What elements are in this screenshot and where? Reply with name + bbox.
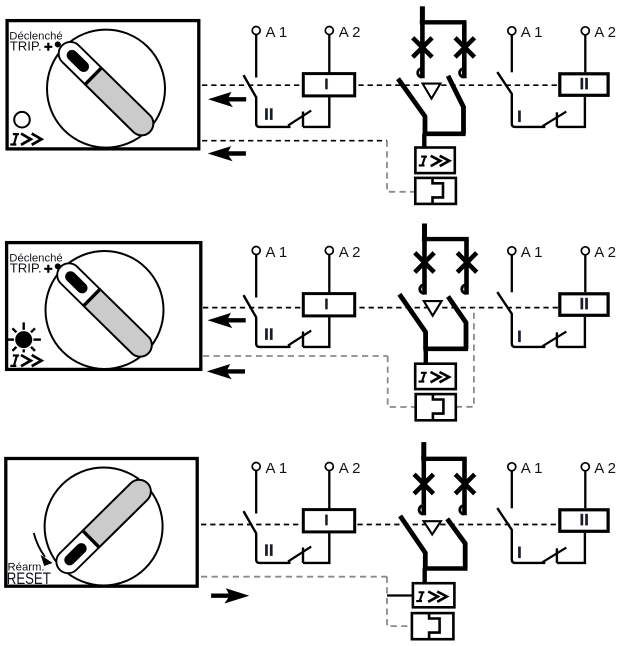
arrow trip signal out (row 1) [208, 92, 246, 107]
main control dashed wire (row 1) [202, 84, 558, 86]
right fixed contact hook (row 1) [460, 69, 464, 77]
terminal A1 (closing circuit, row 3) [508, 463, 516, 471]
svg-text:A 2: A 2 [594, 460, 616, 477]
main control dashed wire (row 3) [201, 524, 558, 526]
contact post (row 1) [302, 112, 304, 127]
contact blade (closing, row 2) [542, 332, 566, 347]
rotary knob (row 2, tripped position) [46, 251, 164, 369]
plus sign (row 2) [44, 265, 52, 273]
trip-free triangle (row 2) [424, 301, 442, 316]
right fixed contact hook (row 3) [460, 506, 464, 514]
contact post (closing, row 3) [556, 548, 558, 563]
wire post to coil I (row 2) [303, 317, 329, 347]
arrow trip order out (row 2) [207, 364, 245, 379]
rotary knob (row 1, tripped position) [47, 30, 165, 148]
contact post (closing, row 1) [556, 112, 558, 127]
terminal A2 (closing circuit, row 1) [581, 27, 589, 35]
indicator dot (row 2) [55, 263, 61, 269]
breaker feed line (row 3) [421, 442, 426, 459]
svg-text:TRIP.: TRIP. [10, 39, 42, 54]
solid wire to release (row 3) [387, 594, 413, 596]
actuator box (row 1) [7, 21, 199, 149]
svg-text:A 1: A 1 [266, 460, 288, 477]
svg-text:A 2: A 2 [594, 244, 616, 261]
moving contact bar (row 1) [423, 132, 466, 137]
svg-text:TRIP.: TRIP. [10, 261, 42, 276]
svg-text:A 1: A 1 [521, 24, 543, 41]
left pole X (breaker function, row 3) [414, 474, 433, 493]
contact blade (row 2) [288, 331, 311, 346]
terminal A2 (closing circuit, row 2) [581, 247, 589, 255]
switch II blade (row 3) [244, 511, 291, 563]
wire bar to release (row 3) [423, 569, 427, 584]
svg-text:A 2: A 2 [339, 460, 361, 477]
coil II box (row 1) [560, 74, 608, 96]
wire A1 down (row 2) [255, 255, 257, 298]
trip order dashed wire (row 1) [202, 140, 387, 142]
reset turn arrow (row 3) [34, 533, 45, 557]
wire post to coil II (row 1) [557, 97, 585, 127]
contact post (closing, row 2) [556, 332, 558, 347]
left moving contact (row 2) [399, 294, 425, 349]
moving contact bar (row 3) [423, 566, 468, 571]
trip-free triangle (row 3) [424, 521, 441, 534]
switch I blade (row 3) [497, 508, 545, 563]
dashed wire latch to main (row 2) [456, 308, 474, 407]
left pole conductor (row 1) [420, 22, 425, 78]
right pole X (breaker function, row 1) [455, 38, 474, 57]
overcurrent release box I>> (row 2) [415, 364, 456, 389]
legend I>> (row 2) [10, 355, 41, 366]
terminal A2 (release circuit, row 3) [325, 463, 333, 471]
switch I blade (row 2) [497, 292, 545, 347]
moving contact bar (row 2) [423, 346, 468, 351]
wire post to coil I (row 1) [303, 97, 329, 127]
trip order dashed wire (row 2) [203, 355, 388, 357]
right pole conductor (row 1) [462, 22, 467, 78]
wire post to coil II (row 3) [557, 533, 585, 563]
indicator dot (row 1) [55, 41, 61, 47]
coil I box (row 3) [303, 510, 354, 532]
LED lit symbol (row 2) [15, 331, 32, 348]
trip-free triangle (row 1) [423, 84, 441, 99]
terminal A2 (release circuit, row 1) [325, 27, 333, 35]
left pole X (breaker function, row 2) [415, 253, 434, 272]
contact post (row 2) [302, 332, 304, 347]
left moving contact (row 3) [400, 516, 425, 569]
rotary knob (row 3, reset position) [45, 468, 163, 586]
right moving contact (row 2) [448, 297, 466, 349]
right pole conductor (row 2) [464, 239, 469, 295]
actuator box (row 2) [7, 243, 201, 370]
label II (row 2) [265, 328, 268, 340]
wire A1 down (row 1) [255, 35, 257, 78]
left fixed contact hook (row 3) [419, 506, 423, 514]
wire A1 down (closing, row 3) [511, 471, 513, 508]
wire bar to release (row 2) [424, 349, 428, 364]
actuator box (row 3) [6, 459, 197, 587]
wire A2 down (closing, row 2) [584, 255, 586, 292]
arrow trip signal out (row 2) [208, 313, 246, 328]
svg-text:A 1: A 1 [266, 24, 288, 41]
right pole X (breaker function, row 2) [457, 253, 476, 272]
wire A2 down (row 2) [328, 255, 330, 293]
svg-text:A 1: A 1 [521, 460, 543, 477]
label II (row 1) [265, 108, 268, 120]
wire bar to release (row 1) [422, 134, 426, 148]
coil I box (row 1) [303, 74, 354, 96]
left pole conductor (row 3) [421, 459, 426, 516]
arrow reset order in (row 3) [211, 588, 249, 603]
label I (row 1) [518, 111, 521, 123]
left moving contact (row 1) [398, 79, 425, 134]
switch II blade (row 2) [244, 295, 291, 347]
label II (row 3) [265, 544, 268, 556]
latch mechanism box (row 2) [416, 394, 456, 420]
latch mechanism box (row 1) [415, 178, 456, 204]
left pole X (breaker function, row 1) [413, 38, 432, 57]
wire A2 down (closing, row 3) [584, 471, 586, 508]
contact blade (row 1) [288, 111, 311, 126]
terminal A1 (release circuit, row 2) [252, 247, 260, 255]
terminal A2 (release circuit, row 2) [325, 247, 333, 255]
switch I blade (row 1) [497, 72, 545, 127]
left pole conductor (row 2) [422, 239, 427, 295]
dashed wire down to latch (row 1) [387, 141, 415, 192]
right fixed contact hook (row 2) [462, 285, 466, 293]
coil II box (row 2) [560, 294, 608, 316]
terminal A2 (closing circuit, row 3) [581, 463, 589, 471]
wire post to coil I (row 3) [303, 533, 329, 563]
coil I box (row 2) [303, 294, 354, 316]
right pole conductor (row 3) [462, 459, 467, 516]
contact blade (row 3) [288, 547, 311, 562]
wire A1 down (closing, row 2) [511, 255, 513, 292]
svg-text:A 2: A 2 [594, 24, 616, 41]
breaker top bar (row 2) [422, 237, 469, 241]
svg-text:A 1: A 1 [266, 244, 288, 261]
wire A2 down (closing, row 1) [584, 35, 586, 72]
LED off circle (row 1) [14, 112, 30, 128]
legend I>> (row 1) [10, 134, 41, 145]
svg-text:RESET: RESET [7, 570, 51, 588]
terminal A1 (release circuit, row 1) [252, 27, 260, 35]
plus sign (row 1) [44, 43, 52, 51]
breaker top bar (row 1) [420, 20, 467, 24]
terminal A1 (closing circuit, row 2) [508, 247, 516, 255]
overcurrent release box I>> (row 1) [415, 148, 454, 174]
arrow trip order out (row 1) [208, 146, 246, 161]
terminal A1 (closing circuit, row 1) [508, 27, 516, 35]
svg-text:A 2: A 2 [339, 244, 361, 261]
svg-text:A 1: A 1 [521, 244, 543, 261]
dashed wire down to latch (row 3) [387, 577, 412, 626]
latch mechanism box (row 3) [412, 613, 454, 639]
breaker feed line (row 1) [420, 6, 425, 22]
wire A1 down (closing, row 1) [511, 35, 513, 72]
dashed wire down to latch (row 2) [388, 356, 416, 407]
contact post (row 3) [302, 548, 304, 563]
wire A1 down (row 3) [255, 471, 257, 514]
label I (row 3) [518, 547, 521, 559]
right pole X (breaker function, row 3) [455, 474, 474, 493]
wire post to coil II (row 2) [557, 317, 585, 347]
main control dashed wire (row 2) [203, 307, 558, 309]
left fixed contact hook (row 1) [418, 69, 422, 77]
contact blade (closing, row 1) [542, 112, 566, 127]
coil II box (row 3) [560, 510, 608, 532]
contact blade (closing, row 3) [542, 548, 566, 563]
wire A2 down (row 3) [328, 471, 330, 509]
right moving contact (row 3) [447, 519, 465, 569]
breaker feed line (row 2) [422, 224, 427, 240]
breaker top bar (row 3) [421, 457, 467, 461]
switch II blade (row 1) [244, 75, 291, 127]
right moving contact (row 1) [448, 76, 464, 134]
wire A2 down (row 1) [328, 35, 330, 73]
terminal A1 (release circuit, row 3) [252, 463, 260, 471]
left fixed contact hook (row 2) [420, 285, 424, 293]
reset order dashed wire (row 3) [201, 576, 387, 578]
label I (row 2) [518, 331, 521, 343]
overcurrent release box I>> (row 3) [413, 583, 455, 607]
svg-text:A 2: A 2 [339, 24, 361, 41]
